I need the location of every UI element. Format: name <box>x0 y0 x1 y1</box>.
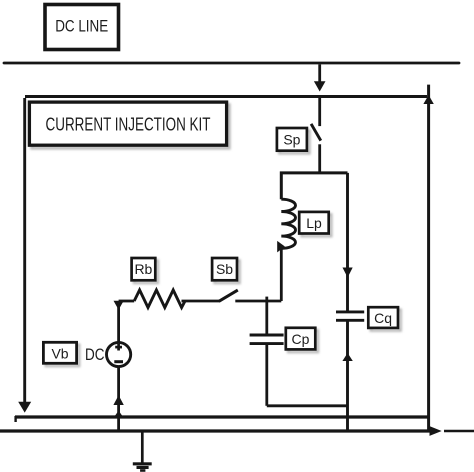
svg-text:Vb: Vb <box>51 345 68 361</box>
svg-text:DC LINE: DC LINE <box>55 17 108 36</box>
svg-text:Cp: Cp <box>292 331 310 347</box>
svg-text:Cq: Cq <box>374 310 392 326</box>
svg-text:DC: DC <box>85 346 105 364</box>
svg-text:CURRENT INJECTION KIT: CURRENT INJECTION KIT <box>46 114 211 135</box>
svg-text:Rb: Rb <box>134 261 152 277</box>
svg-text:Lp: Lp <box>306 215 322 231</box>
svg-text:Sp: Sp <box>283 131 300 147</box>
svg-text:Sb: Sb <box>216 261 233 277</box>
